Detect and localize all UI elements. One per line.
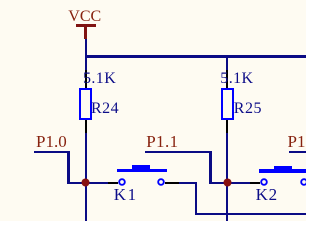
VCC label xyxy=(68,9,101,25)
resistor R25 pin 1 xyxy=(226,70,228,88)
wire VCC stub down to rail xyxy=(85,39,87,57)
wire rail down to R24 xyxy=(85,57,87,71)
wire top VCC rail xyxy=(85,55,306,57)
switch K1 designator xyxy=(114,186,138,203)
wire P1.0 horizontal xyxy=(34,151,70,153)
wire corner down xyxy=(195,182,197,216)
resistor R25 body xyxy=(221,88,234,120)
wire P1.0 to junction xyxy=(67,182,85,184)
wire P1.1 horizontal xyxy=(145,151,212,153)
resistor R24 value 5.1K xyxy=(83,71,116,87)
wire P1.1 vertical xyxy=(209,151,211,184)
switch K1 contact 1 xyxy=(117,177,127,187)
power symbol VCC xyxy=(76,24,96,26)
switch K1 contact 2 xyxy=(156,177,166,187)
switch K2 button cap xyxy=(259,169,309,173)
junction node B (R25/K2/P1.1) xyxy=(223,178,232,187)
net label P1.1 xyxy=(146,133,178,150)
switch K1 button cap xyxy=(117,169,167,173)
junction node A (R24/K1/P1.0) xyxy=(81,178,90,187)
switch K2 contact 1 xyxy=(259,177,269,187)
resistor R24 pin 2 xyxy=(85,120,87,135)
net label P1.0 xyxy=(36,133,67,150)
wire P1.0 vertical xyxy=(67,151,69,184)
resistor R24 designator xyxy=(91,101,119,117)
resistor R25 pin 2 xyxy=(226,120,228,135)
wire rail down to R25 xyxy=(226,57,228,71)
switch K2 designator xyxy=(256,186,278,203)
resistor R24 pin 1 xyxy=(85,70,87,88)
wire R24 down through junction to bottom edge xyxy=(85,133,87,221)
switch K2 contact 2 xyxy=(299,177,309,187)
wire R25 down through junction to bottom edge xyxy=(226,133,228,221)
resistor R24 body xyxy=(79,88,92,120)
switch K2 pin 1 xyxy=(250,182,260,184)
switch K1 pin 1 xyxy=(108,182,118,184)
wire junction B to K2 xyxy=(227,182,250,184)
wire P1.1 to junction xyxy=(209,182,227,184)
resistor R25 value 5.1K xyxy=(220,71,253,87)
wire bottom horizontal xyxy=(195,213,306,215)
resistor R25 designator xyxy=(234,101,262,117)
wire junction A to K1 xyxy=(86,182,109,184)
wire K1 to corner xyxy=(179,182,197,184)
net label P1.2 (clipped at sheet edge) xyxy=(288,133,306,150)
switch K1 pin 2 xyxy=(165,182,179,184)
wire P1.2 horizontal xyxy=(289,151,306,153)
